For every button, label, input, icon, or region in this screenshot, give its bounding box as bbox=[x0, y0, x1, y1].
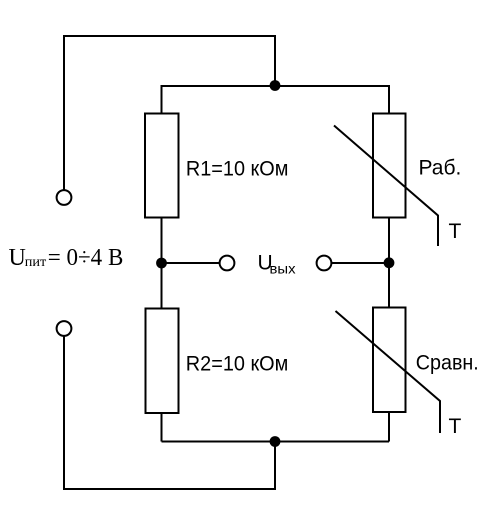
wire: top bridge rail bbox=[162, 85, 390, 87]
terminal circle Uвых left bbox=[220, 256, 235, 271]
thermistor RK1 body (working) bbox=[373, 114, 406, 218]
wire: R1 bottom to R2 top through node B bbox=[161, 218, 163, 309]
svg-text:Раб.: Раб. bbox=[419, 157, 462, 180]
wire: top-left loop from Uпит+ terminal to node A bbox=[64, 36, 275, 190]
svg-text:T: T bbox=[449, 415, 462, 438]
wire: bottom bridge rail bbox=[162, 441, 390, 443]
node A junction dot (top center) bbox=[270, 80, 281, 91]
svg-text:пит: пит bbox=[25, 255, 47, 270]
wire: RK2 bottom to bottom rail bbox=[388, 412, 390, 442]
wire: top rail down to working thermistor bbox=[388, 85, 390, 114]
svg-text:= 0÷4 В: = 0÷4 В bbox=[48, 245, 124, 271]
terminal circle Uвых right bbox=[317, 256, 332, 271]
wire: R2 bottom to bottom rail bbox=[161, 413, 163, 442]
terminal circle Uпит- (bottom-left) bbox=[57, 321, 72, 336]
node C junction dot (right mid) bbox=[384, 257, 395, 268]
svg-text:R2=10 кОм: R2=10 кОм bbox=[186, 353, 288, 376]
svg-text:вых: вых bbox=[270, 260, 296, 276]
wire: RK1 bottom to node C bbox=[388, 218, 390, 309]
wire: Uвых right terminal to node C bbox=[332, 262, 390, 264]
thermistor RK2 body (reference) bbox=[373, 308, 406, 413]
resistor R1 body bbox=[145, 114, 179, 218]
node D junction dot (bottom center) bbox=[270, 436, 281, 447]
thermistor RK1 diagonal stroke with tail bbox=[334, 126, 438, 247]
wire: node A down to R1 top bbox=[161, 85, 163, 114]
wire: node B to Uвых left terminal bbox=[162, 262, 220, 264]
terminal circle Uпит+ (top-left) bbox=[57, 190, 72, 205]
resistor R2 body bbox=[146, 309, 179, 414]
thermistor RK2 diagonal stroke with tail bbox=[336, 311, 441, 433]
wire: bottom loop from node D to Uпит- terminal bbox=[64, 337, 275, 490]
svg-text:T: T bbox=[449, 220, 462, 243]
svg-text:U: U bbox=[9, 245, 26, 271]
svg-text:R1=10 кОм: R1=10 кОм bbox=[186, 158, 289, 181]
svg-text:Сравн.: Сравн. bbox=[416, 352, 479, 375]
node B junction dot (left mid) bbox=[156, 258, 167, 269]
